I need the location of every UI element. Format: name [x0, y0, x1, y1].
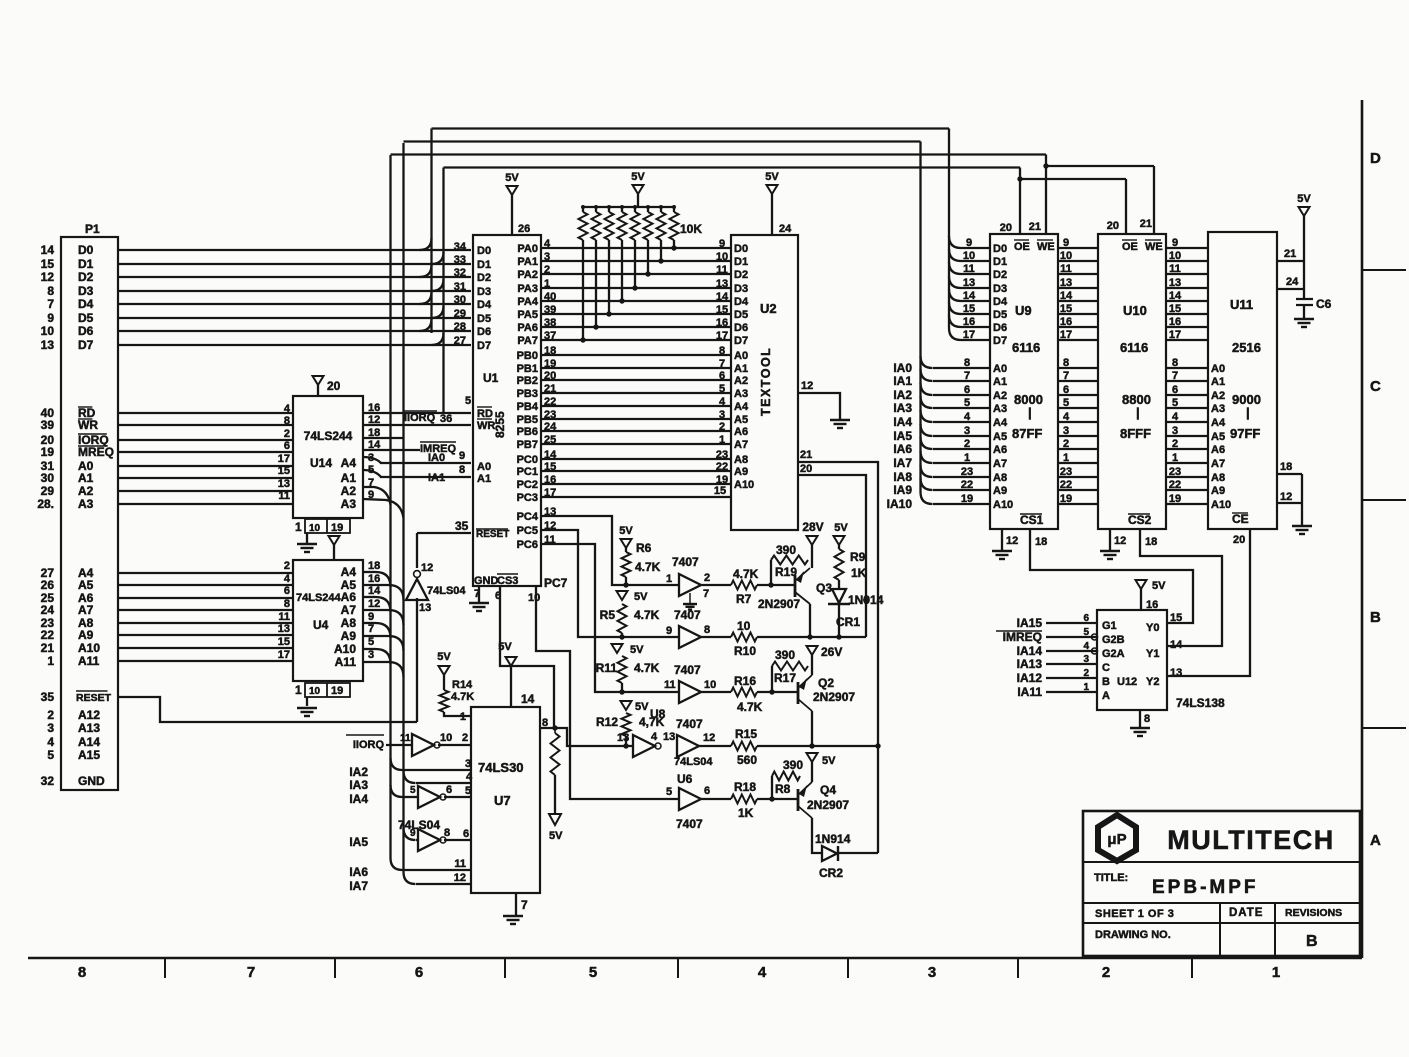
svg-text:5: 5	[1063, 397, 1069, 409]
svg-text:16: 16	[963, 316, 975, 328]
svg-text:A7: A7	[78, 603, 94, 617]
svg-text:2: 2	[704, 572, 710, 584]
svg-text:23: 23	[1060, 466, 1072, 478]
svg-text:29: 29	[41, 484, 55, 498]
svg-text:PA0: PA0	[517, 243, 538, 255]
svg-text:6: 6	[446, 784, 452, 796]
svg-text:A9: A9	[341, 629, 357, 643]
svg-text:U6: U6	[677, 772, 693, 786]
svg-text:A7: A7	[734, 439, 748, 451]
svg-text:A11: A11	[78, 654, 100, 668]
svg-text:6116: 6116	[1120, 340, 1148, 355]
svg-text:2: 2	[719, 421, 725, 433]
svg-text:D0: D0	[734, 243, 748, 255]
svg-text:A8: A8	[993, 472, 1007, 484]
svg-text:D6: D6	[993, 322, 1007, 334]
svg-text:A10: A10	[993, 499, 1013, 511]
svg-text:3: 3	[928, 964, 936, 981]
svg-text:5: 5	[964, 397, 970, 409]
svg-text:7: 7	[47, 297, 54, 311]
svg-text:4: 4	[651, 731, 658, 743]
svg-text:2: 2	[1102, 964, 1110, 981]
svg-text:IA0: IA0	[893, 361, 912, 375]
svg-text:7407: 7407	[674, 608, 701, 622]
svg-text:A0: A0	[993, 363, 1007, 375]
svg-text:A2: A2	[341, 484, 357, 498]
svg-text:C6: C6	[1316, 297, 1332, 311]
svg-text:A0: A0	[1211, 363, 1225, 375]
svg-text:IA3: IA3	[349, 778, 368, 792]
svg-text:9: 9	[459, 450, 465, 462]
svg-text:A3: A3	[734, 388, 748, 400]
svg-text:4: 4	[47, 735, 54, 749]
svg-text:D2: D2	[477, 272, 491, 284]
svg-text:12: 12	[1114, 535, 1126, 547]
svg-text:A1: A1	[477, 473, 491, 485]
svg-text:A10: A10	[734, 479, 754, 491]
svg-text:8: 8	[1063, 357, 1069, 369]
svg-text:15: 15	[278, 636, 290, 648]
svg-text:13: 13	[41, 338, 55, 352]
svg-text:19: 19	[961, 493, 973, 505]
svg-text:IA2: IA2	[349, 765, 368, 779]
svg-text:8: 8	[459, 464, 465, 476]
svg-text:6: 6	[719, 370, 725, 382]
svg-text:10: 10	[309, 523, 321, 534]
svg-text:11: 11	[454, 858, 466, 870]
svg-text:IA4: IA4	[349, 792, 368, 806]
svg-text:14: 14	[41, 243, 55, 257]
svg-text:5V: 5V	[634, 591, 648, 603]
svg-text:10: 10	[309, 686, 321, 697]
svg-text:15: 15	[41, 257, 55, 271]
svg-text:13: 13	[278, 623, 290, 635]
svg-text:16: 16	[1060, 316, 1072, 328]
svg-text:A4: A4	[1211, 417, 1226, 429]
svg-text:PC0: PC0	[517, 454, 538, 466]
svg-text:9: 9	[47, 311, 54, 325]
svg-text:10: 10	[963, 250, 975, 262]
svg-text:5V: 5V	[619, 525, 633, 537]
svg-text:9: 9	[1172, 237, 1178, 249]
svg-text:R10: R10	[734, 644, 756, 658]
svg-text:D1: D1	[993, 256, 1007, 268]
svg-text:14: 14	[521, 692, 535, 706]
svg-text:21: 21	[1284, 248, 1296, 260]
svg-text:14: 14	[1169, 290, 1182, 302]
svg-text:6: 6	[1172, 384, 1178, 396]
svg-text:RESET: RESET	[476, 529, 509, 540]
svg-text:PB1: PB1	[517, 363, 538, 375]
svg-text:97FF: 97FF	[1230, 426, 1260, 441]
svg-text:5V: 5V	[834, 522, 848, 534]
svg-text:U7: U7	[494, 793, 511, 808]
svg-text:3: 3	[47, 721, 54, 735]
svg-text:16: 16	[368, 573, 380, 585]
svg-text:OE: OE	[1014, 241, 1030, 253]
svg-text:A14: A14	[78, 735, 100, 749]
svg-text:R11: R11	[596, 661, 618, 675]
svg-text:D0: D0	[477, 245, 491, 257]
svg-text:1: 1	[666, 573, 672, 585]
svg-text:2: 2	[284, 560, 290, 572]
svg-text:30: 30	[41, 471, 55, 485]
svg-text:A9: A9	[1211, 485, 1225, 497]
svg-text:5: 5	[47, 748, 54, 762]
svg-text:OE: OE	[1122, 241, 1138, 253]
svg-text:|: |	[1136, 405, 1140, 420]
svg-text:IA3: IA3	[893, 401, 912, 415]
svg-text:22: 22	[716, 461, 728, 473]
svg-text:5V: 5V	[549, 830, 563, 842]
svg-text:A3: A3	[78, 497, 94, 511]
svg-text:12: 12	[801, 380, 813, 392]
svg-text:A1: A1	[1211, 376, 1225, 388]
svg-text:7: 7	[247, 964, 255, 981]
svg-text:D0: D0	[78, 243, 94, 257]
svg-text:8: 8	[47, 284, 54, 298]
svg-text:8: 8	[1144, 713, 1150, 725]
svg-text:4: 4	[758, 964, 767, 981]
svg-text:5V: 5V	[498, 641, 512, 653]
svg-text:A8: A8	[1211, 472, 1225, 484]
svg-text:D5: D5	[734, 309, 748, 321]
svg-text:μP: μP	[1107, 831, 1126, 848]
svg-text:3: 3	[368, 649, 374, 661]
svg-text:B: B	[1370, 609, 1381, 626]
svg-text:13: 13	[419, 602, 431, 614]
svg-text:8: 8	[964, 357, 970, 369]
svg-text:GND: GND	[78, 774, 105, 788]
svg-text:IA4: IA4	[893, 415, 912, 429]
svg-text:A0: A0	[734, 350, 748, 362]
svg-text:87FF: 87FF	[1012, 426, 1042, 441]
svg-text:3: 3	[1172, 425, 1178, 437]
svg-text:390: 390	[775, 648, 795, 662]
svg-text:13: 13	[617, 732, 629, 744]
svg-text:27: 27	[454, 335, 466, 347]
svg-text:R7: R7	[736, 592, 752, 606]
svg-text:20: 20	[1000, 222, 1012, 234]
svg-text:32: 32	[41, 774, 55, 788]
svg-text:16: 16	[716, 317, 728, 329]
svg-text:A2: A2	[993, 390, 1007, 402]
svg-text:D3: D3	[477, 286, 491, 298]
svg-text:4.7K: 4.7K	[634, 661, 660, 675]
svg-text:IA1: IA1	[893, 374, 912, 388]
svg-text:74LS244: 74LS244	[296, 592, 342, 604]
svg-text:A10: A10	[78, 641, 100, 655]
svg-text:12: 12	[41, 270, 55, 284]
svg-text:17: 17	[278, 649, 290, 661]
svg-text:G2A: G2A	[1102, 648, 1125, 660]
svg-text:A6: A6	[341, 590, 357, 604]
svg-text:18: 18	[1280, 461, 1292, 473]
svg-text:IA6: IA6	[893, 442, 912, 456]
svg-text:DRAWING NO.: DRAWING NO.	[1095, 929, 1171, 941]
svg-text:D5: D5	[993, 309, 1007, 321]
svg-text:IA9: IA9	[893, 483, 912, 497]
svg-text:PB0: PB0	[517, 350, 538, 362]
svg-text:5: 5	[666, 786, 672, 798]
svg-text:6: 6	[463, 828, 469, 840]
svg-text:4: 4	[284, 573, 291, 585]
svg-text:5: 5	[465, 395, 471, 407]
svg-text:12: 12	[421, 562, 433, 574]
svg-text:D4: D4	[993, 296, 1008, 308]
svg-text:PB7: PB7	[517, 439, 538, 451]
svg-text:PB5: PB5	[517, 414, 538, 426]
svg-text:G2B: G2B	[1102, 634, 1125, 646]
svg-text:5: 5	[719, 383, 725, 395]
svg-text:A5: A5	[78, 578, 94, 592]
svg-text:35: 35	[41, 690, 55, 704]
svg-text:20: 20	[1233, 534, 1245, 546]
svg-text:16: 16	[1146, 599, 1158, 611]
svg-text:10: 10	[716, 251, 728, 263]
svg-text:|: |	[1028, 405, 1032, 420]
svg-text:6: 6	[284, 440, 290, 452]
svg-text:IA2: IA2	[893, 388, 912, 402]
svg-text:10: 10	[528, 592, 540, 604]
svg-text:5V: 5V	[822, 755, 836, 767]
svg-text:U4: U4	[313, 618, 329, 632]
svg-text:G1: G1	[1102, 620, 1117, 632]
svg-text:IA15: IA15	[1017, 616, 1043, 630]
svg-text:A9: A9	[734, 466, 748, 478]
svg-text:C: C	[1102, 662, 1110, 674]
svg-text:IA0: IA0	[428, 452, 445, 464]
svg-text:6: 6	[1063, 384, 1069, 396]
svg-text:22: 22	[1060, 479, 1072, 491]
svg-text:13: 13	[663, 731, 675, 743]
svg-text:D6: D6	[734, 322, 748, 334]
svg-text:15: 15	[1060, 303, 1072, 315]
svg-text:11: 11	[963, 263, 975, 275]
svg-text:IA1: IA1	[428, 472, 445, 484]
svg-text:A10: A10	[1211, 499, 1231, 511]
svg-text:A6: A6	[993, 444, 1007, 456]
svg-text:20: 20	[1107, 220, 1119, 232]
svg-text:D0: D0	[993, 243, 1007, 255]
svg-text:A7: A7	[341, 603, 357, 617]
svg-text:14: 14	[1060, 290, 1073, 302]
svg-text:13: 13	[1169, 277, 1181, 289]
svg-text:R12: R12	[596, 715, 618, 729]
svg-text:11: 11	[278, 611, 290, 623]
svg-text:6116: 6116	[1012, 340, 1040, 355]
svg-text:D3: D3	[734, 283, 748, 295]
svg-text:A5: A5	[1211, 431, 1225, 443]
svg-text:5V: 5V	[765, 171, 779, 183]
svg-text:PB4: PB4	[517, 401, 539, 413]
svg-text:12: 12	[1280, 491, 1292, 503]
svg-text:A9: A9	[993, 485, 1007, 497]
svg-text:Y1: Y1	[1146, 648, 1159, 660]
svg-text:2516: 2516	[1232, 340, 1261, 355]
svg-text:A5: A5	[341, 578, 357, 592]
svg-text:21: 21	[1140, 218, 1152, 230]
svg-text:9: 9	[966, 237, 972, 249]
svg-text:7: 7	[719, 358, 725, 370]
svg-text:R16: R16	[734, 674, 756, 688]
svg-text:D1: D1	[734, 256, 748, 268]
svg-text:7407: 7407	[676, 817, 703, 831]
svg-text:10: 10	[41, 324, 55, 338]
svg-text:R8: R8	[775, 782, 791, 796]
svg-text:IA12: IA12	[1017, 671, 1043, 685]
svg-text:U12: U12	[1117, 676, 1137, 688]
svg-text:15: 15	[1170, 612, 1182, 624]
svg-text:MULTITECH: MULTITECH	[1167, 825, 1334, 855]
svg-text:5: 5	[410, 785, 416, 796]
svg-text:18: 18	[368, 560, 380, 572]
svg-text:D2: D2	[734, 269, 748, 281]
svg-text:MREQ: MREQ	[78, 445, 114, 459]
svg-text:D3: D3	[78, 284, 94, 298]
svg-text:24: 24	[41, 603, 55, 617]
svg-text:P1: P1	[85, 222, 100, 236]
svg-text:2: 2	[47, 708, 54, 722]
svg-text:1K: 1K	[738, 806, 754, 820]
svg-text:21: 21	[800, 449, 812, 461]
svg-text:74LS04: 74LS04	[674, 756, 713, 768]
svg-text:9: 9	[666, 625, 672, 637]
svg-text:10: 10	[1169, 250, 1181, 262]
svg-text:28V: 28V	[802, 520, 823, 534]
svg-text:D6: D6	[78, 324, 94, 338]
svg-text:U11: U11	[1230, 297, 1253, 312]
svg-text:PC2: PC2	[517, 479, 538, 491]
svg-text:WE: WE	[1145, 241, 1163, 253]
svg-text:DATE: DATE	[1229, 907, 1263, 919]
svg-text:19: 19	[41, 445, 55, 459]
svg-text:5V: 5V	[635, 701, 649, 713]
svg-text:A1: A1	[78, 471, 94, 485]
svg-text:CE: CE	[1232, 512, 1249, 526]
svg-text:A6: A6	[1211, 444, 1225, 456]
svg-text:23: 23	[961, 466, 973, 478]
svg-text:IA13: IA13	[1017, 657, 1043, 671]
svg-text:REVISIONS: REVISIONS	[1285, 907, 1342, 919]
svg-text:8: 8	[78, 964, 86, 981]
svg-text:20: 20	[327, 379, 341, 393]
svg-text:A1: A1	[734, 363, 748, 375]
svg-text:8: 8	[719, 345, 725, 357]
svg-text:1: 1	[295, 683, 302, 697]
svg-text:8FFF: 8FFF	[1120, 426, 1151, 441]
svg-text:13: 13	[278, 478, 290, 490]
svg-text:D7: D7	[78, 338, 94, 352]
svg-text:17: 17	[278, 453, 290, 465]
svg-text:7: 7	[521, 898, 528, 912]
svg-text:17: 17	[963, 329, 975, 341]
svg-text:11: 11	[1169, 263, 1181, 275]
svg-text:560: 560	[737, 753, 757, 767]
svg-text:R17: R17	[774, 671, 796, 685]
svg-text:A8: A8	[734, 454, 748, 466]
svg-text:IA10: IA10	[887, 497, 913, 511]
svg-text:PA5: PA5	[517, 309, 538, 321]
svg-text:18: 18	[1035, 536, 1047, 548]
svg-text:A10: A10	[334, 642, 356, 656]
svg-text:26: 26	[41, 578, 55, 592]
svg-text:A4: A4	[734, 401, 749, 413]
svg-text:A13: A13	[78, 721, 100, 735]
svg-text:21: 21	[41, 641, 55, 655]
svg-text:15: 15	[716, 304, 728, 316]
svg-text:R15: R15	[735, 727, 757, 741]
svg-text:29: 29	[454, 308, 466, 320]
svg-text:Q2: Q2	[818, 676, 834, 690]
svg-text:5V: 5V	[1152, 580, 1166, 592]
svg-text:15: 15	[714, 485, 726, 497]
svg-text:D7: D7	[734, 335, 748, 347]
svg-text:B: B	[1102, 676, 1110, 688]
svg-text:9: 9	[719, 238, 725, 250]
svg-text:1: 1	[47, 654, 54, 668]
svg-text:2N2907: 2N2907	[758, 597, 800, 611]
svg-text:CR2: CR2	[819, 866, 843, 880]
svg-text:A8: A8	[341, 616, 357, 630]
svg-text:1: 1	[295, 520, 302, 534]
svg-text:D3: D3	[993, 283, 1007, 295]
svg-text:PA4: PA4	[517, 296, 538, 308]
svg-text:A5: A5	[734, 414, 748, 426]
svg-text:U10: U10	[1123, 303, 1147, 318]
svg-text:26V: 26V	[821, 645, 842, 659]
svg-text:4.7K: 4.7K	[451, 691, 474, 703]
svg-text:4: 4	[1172, 411, 1179, 423]
svg-text:10: 10	[440, 732, 452, 744]
svg-text:U8: U8	[650, 707, 666, 721]
svg-text:D5: D5	[477, 313, 491, 325]
svg-text:A2: A2	[1211, 390, 1225, 402]
svg-text:7407: 7407	[676, 717, 703, 731]
svg-text:A2: A2	[78, 484, 94, 498]
svg-text:16: 16	[1169, 316, 1181, 328]
svg-text:PB3: PB3	[517, 388, 538, 400]
svg-text:17: 17	[1060, 329, 1072, 341]
svg-text:R14: R14	[452, 679, 473, 691]
svg-text:5: 5	[589, 964, 597, 981]
svg-text:4.7K: 4.7K	[634, 608, 660, 622]
svg-text:9: 9	[368, 611, 374, 623]
svg-text:2N2907: 2N2907	[813, 690, 855, 704]
svg-text:5: 5	[1172, 397, 1178, 409]
svg-text:A1: A1	[341, 471, 357, 485]
svg-text:2: 2	[284, 428, 290, 440]
svg-text:A0: A0	[477, 461, 491, 473]
svg-text:74LS138: 74LS138	[1176, 696, 1225, 710]
svg-text:14: 14	[963, 290, 976, 302]
svg-text:7: 7	[368, 623, 374, 635]
svg-text:36: 36	[440, 413, 452, 425]
svg-text:B: B	[1306, 933, 1318, 950]
svg-text:PC7: PC7	[544, 576, 568, 590]
svg-text:13: 13	[963, 277, 975, 289]
svg-text:C: C	[1370, 378, 1381, 395]
svg-text:U14: U14	[310, 456, 332, 470]
svg-text:IA7: IA7	[349, 879, 368, 893]
svg-text:TEXTOOL: TEXTOOL	[759, 347, 773, 416]
svg-text:U1: U1	[483, 371, 499, 385]
svg-text:19: 19	[331, 522, 343, 534]
svg-text:14: 14	[368, 585, 381, 597]
svg-text:12: 12	[368, 598, 380, 610]
svg-text:8: 8	[284, 415, 290, 427]
svg-text:17: 17	[1169, 329, 1181, 341]
